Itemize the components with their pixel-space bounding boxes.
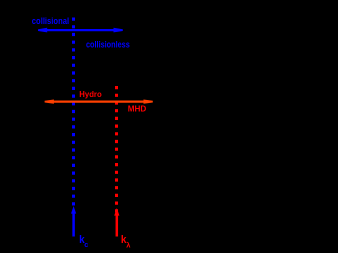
red vertical arrow pointing up at k_lambda (114, 208, 119, 237)
blue dotted vertical line (collisional/collisionless boundary at k_c) (72, 18, 75, 208)
blue vertical arrow pointing up at k_c (71, 206, 76, 237)
svg-text:collisionless: collisionless (86, 39, 130, 50)
svg-text:MHD: MHD (128, 104, 147, 114)
label k_c (79, 234, 88, 249)
svg-text:Hydro: Hydro (79, 89, 101, 99)
blue horizontal double-headed arrow (collisional <-> collisionless) (38, 28, 123, 33)
red-orange horizontal double-headed arrow (Hydro <-> MHD) (45, 100, 153, 104)
red dotted vertical line (Hydro/MHD boundary at k_lambda) (115, 86, 118, 213)
svg-text:c: c (84, 240, 88, 249)
svg-text:collisional: collisional (32, 15, 69, 26)
label k_lambda (121, 234, 131, 249)
